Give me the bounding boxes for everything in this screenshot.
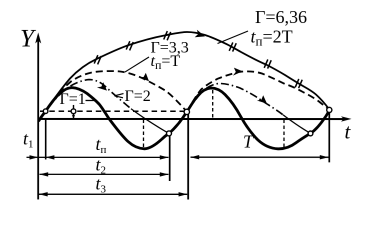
thin tail of G=2 second arc down to node circle bbox=[283, 115, 311, 134]
svg-text:Γ=1: Γ=1 bbox=[60, 91, 86, 108]
svg-text:Γ=6,36: Γ=6,36 bbox=[255, 7, 307, 27]
dashed drop line at second sine peak bbox=[212, 90, 214, 119]
t axis bbox=[37, 116, 351, 122]
double hatch mark 1 on top curve bbox=[94, 55, 101, 64]
leader arrow for G=2 label bbox=[115, 94, 124, 98]
arrowhead on dashed curve arc1 bbox=[139, 73, 149, 81]
dimension line t_p with t1 outside arrows bbox=[26, 155, 168, 159]
node circle at period end bbox=[327, 107, 332, 112]
extension line at period start x=188.2 bbox=[187, 115, 189, 200]
node circle at t_p end bbox=[166, 131, 171, 136]
arrowhead on dash-dot curve arc2 bbox=[257, 95, 267, 103]
double hatch mark 5 on top curve bbox=[264, 59, 271, 68]
node circle on rising edge bbox=[43, 109, 48, 114]
mean-level marker arrow bbox=[72, 114, 75, 119]
arrowhead on dashed curve arc2 bbox=[233, 68, 243, 76]
sine curve G=1 (thick solid, two periods) bbox=[39, 88, 329, 149]
double hatch mark 2 on top curve bbox=[126, 41, 133, 50]
svg-text:Γ=2: Γ=2 bbox=[125, 88, 151, 105]
dash-dot curve G=2 first arc bbox=[39, 80, 131, 120]
dash-dot curve G=2 second arc bbox=[187, 83, 283, 114]
thin tail of G=2 first arc down to node circle bbox=[131, 109, 169, 133]
arrowhead on dash-dot curve arc1 bbox=[97, 82, 107, 90]
mean-level marker stem bbox=[72, 105, 74, 119]
leader line for G=1 label bbox=[86, 100, 99, 104]
node circle on mean-level marker bbox=[71, 109, 76, 114]
dimension line t_2 bbox=[39, 172, 168, 176]
double hatch mark 6 on top curve bbox=[295, 79, 302, 88]
node circle on second rising edge bbox=[308, 131, 313, 136]
dashed curve G=3.3 t_p=T first arc bbox=[39, 71, 187, 120]
leader line for t_p=T label bbox=[125, 57, 149, 72]
extension line at t1 end bbox=[45, 120, 47, 160]
extension line below node at x=169.7 bbox=[169, 136, 171, 181]
dashed drop line at first sine minimum bbox=[142, 119, 144, 146]
leader line for G=6.36 label bbox=[218, 31, 249, 44]
dashed mean-level line bbox=[40, 110, 185, 112]
dashed drop line at second sine minimum bbox=[283, 120, 285, 148]
extension line at period end x=329.3 bbox=[328, 113, 330, 163]
double hatch mark 3 on top curve bbox=[164, 31, 171, 40]
double hatch mark 4 on top curve bbox=[229, 42, 236, 51]
dimension line t_3 bbox=[39, 192, 187, 196]
Y axis bbox=[35, 32, 41, 199]
node circle at period start bbox=[184, 109, 189, 114]
top solid curve G=6.36 t_p=2T bbox=[39, 32, 329, 120]
dashed curve G=3.3 t_p=T second arc bbox=[187, 71, 330, 112]
dimension line T bbox=[190, 155, 328, 159]
arrowhead on top curve bbox=[195, 30, 205, 38]
